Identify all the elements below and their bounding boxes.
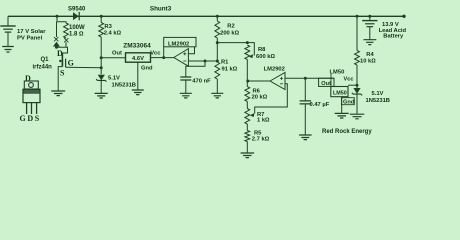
resistor R7 1k — [245, 109, 250, 125]
zener D3 5.1V — [352, 88, 362, 95]
label LM2902 first — [168, 42, 189, 48]
pin label Vcc LM50 — [344, 77, 354, 83]
battery B1 17V solar panel — [0, 26, 15, 32]
svg-text:LM50: LM50 — [330, 69, 345, 75]
label LM2902 second — [264, 67, 285, 73]
svg-text:0.47 µF: 0.47 µF — [310, 102, 330, 108]
label Q1 — [41, 57, 50, 63]
diode shunt (up) — [53, 42, 60, 47]
wire cap2 to ground — [304, 104, 306, 135]
svg-text:600 kΩ: 600 kΩ — [256, 54, 276, 60]
op-amp U3 plus — [280, 77, 283, 80]
label D package — [25, 74, 31, 83]
op-amp U2 plus — [183, 52, 186, 55]
wire bus to R3 — [100, 16, 102, 22]
label LM50 — [330, 69, 345, 75]
wire R5 to ground — [246, 142, 248, 153]
resistor R6 20k — [245, 87, 250, 102]
svg-text:1N5231B: 1N5231B — [112, 82, 137, 88]
svg-text:Vcc: Vcc — [150, 50, 161, 56]
ground gate zener — [95, 93, 108, 98]
svg-text:Gnd: Gnd — [141, 65, 153, 71]
capacitor C2 0.47uF — [300, 101, 312, 104]
package body — [23, 89, 40, 102]
ic U4 LM50 box — [331, 87, 348, 97]
pin box Gnd — [342, 98, 355, 105]
svg-text:17 V Solar: 17 V Solar — [17, 29, 46, 35]
x mark left branch — [54, 37, 58, 41]
pin label Out — [112, 50, 122, 56]
transistor Q1 gate bar — [65, 59, 67, 68]
wire R3 to gate node — [100, 37, 102, 74]
node gate — [100, 66, 103, 69]
wire branch split — [57, 16, 66, 23]
node R4 branch — [356, 15, 359, 18]
wire box leader left — [163, 47, 165, 58]
svg-text:Q1: Q1 — [41, 57, 50, 63]
op-amp U3 minus — [280, 83, 283, 85]
svg-text:Gnd: Gnd — [343, 99, 355, 105]
pin label Out LM50 — [321, 81, 331, 87]
wire inverting input line — [188, 60, 217, 62]
svg-text:LM2902: LM2902 — [168, 42, 189, 48]
wire panel to bus — [7, 16, 9, 26]
label 600 kohm — [256, 54, 276, 60]
ic U1 ZM33064 box — [126, 53, 151, 62]
node R2 branch — [216, 15, 219, 18]
node bus end terminal — [402, 15, 405, 18]
label S9540 — [68, 7, 86, 13]
ground source — [51, 91, 65, 96]
node vcc sense — [356, 84, 359, 87]
label Lead Acid — [379, 28, 407, 34]
svg-text:R2: R2 — [227, 23, 234, 29]
wire R6 to R7 — [246, 102, 248, 109]
ground R5 — [241, 153, 255, 158]
wire node A to R8 — [217, 42, 247, 44]
label 1N5231B right zener — [366, 98, 391, 104]
ic label box LM2902 first — [164, 37, 196, 46]
wire box leader right — [188, 47, 194, 54]
net label Shunt3 — [150, 6, 172, 13]
wire gate line — [66, 66, 102, 69]
svg-text:G: G — [68, 58, 74, 67]
package legs — [27, 103, 37, 114]
wire source lead — [58, 67, 62, 91]
node opamp2 out — [246, 80, 249, 83]
ground zener2 — [350, 114, 364, 119]
label 2.7 kohm — [252, 136, 270, 142]
wire LM50 vcc — [348, 84, 357, 86]
label 20 kohm — [252, 94, 268, 100]
label 1.8 ohm — [69, 32, 84, 38]
op-amp U3 triangle — [270, 73, 285, 90]
wire battery2 negative — [369, 27, 371, 40]
resistor R4 10k — [355, 51, 360, 66]
label 5.1V right zener — [372, 91, 384, 97]
label Red Rock Energy — [322, 129, 372, 135]
node ZM out — [100, 56, 103, 59]
wire opamp2 out — [247, 80, 270, 82]
label 1N5231B gate zener — [112, 82, 137, 88]
label R8 — [258, 47, 266, 53]
pin label Vcc — [150, 50, 161, 56]
wire zener2 ground — [356, 94, 358, 114]
node solar panel branch — [56, 15, 59, 18]
label ZM33064 — [123, 42, 151, 49]
ground 0.47uF — [299, 135, 312, 140]
label Battery — [383, 34, 404, 40]
transistor Q1 body dot — [59, 60, 61, 62]
svg-text:GDS: GDS — [20, 114, 41, 123]
svg-text:Out: Out — [112, 50, 122, 56]
svg-text:Battery: Battery — [383, 34, 404, 40]
svg-text:Vcc: Vcc — [344, 77, 354, 83]
node battery branch — [368, 15, 371, 18]
label 100W — [69, 25, 85, 31]
wire LM50 gnd — [341, 97, 343, 114]
label 470 nF — [192, 78, 211, 84]
svg-text:LM50: LM50 — [333, 91, 347, 97]
label 4.6V — [132, 56, 144, 62]
svg-text:5.1V: 5.1V — [108, 76, 120, 82]
label 0.47 uF — [310, 102, 330, 108]
package tab — [24, 81, 38, 89]
svg-text:S: S — [60, 68, 65, 77]
svg-text:1N5231B: 1N5231B — [366, 98, 391, 104]
svg-text:Out: Out — [321, 81, 331, 87]
pin box Out — [319, 78, 334, 86]
label R5 — [254, 131, 262, 137]
svg-text:Shunt3: Shunt3 — [150, 6, 172, 13]
svg-text:20 kΩ: 20 kΩ — [252, 94, 268, 100]
wire R2 to node A — [216, 38, 218, 62]
label 17 V Solar — [17, 29, 46, 35]
label S source — [60, 68, 65, 77]
resistor R3 2.4k — [99, 23, 104, 38]
node feedback cap — [204, 60, 207, 63]
wiper R8 — [247, 43, 254, 59]
label 13.9 V — [382, 22, 399, 28]
label D drain — [57, 49, 63, 58]
op-amp U2 triangle — [174, 49, 189, 67]
resistor R5 2.7k — [245, 131, 250, 142]
svg-text:Red Rock Energy: Red Rock Energy — [322, 129, 372, 135]
svg-text:200 kΩ: 200 kΩ — [220, 30, 240, 36]
wire resistor to D node — [65, 42, 67, 47]
ground panel — [2, 47, 14, 53]
resistor R2 200k — [215, 21, 220, 38]
label R1 — [221, 60, 229, 66]
wire bus to R2 — [216, 16, 218, 21]
wire diode to D node — [56, 46, 58, 49]
op-amp U2 minus — [183, 60, 186, 62]
label G gate — [68, 58, 74, 67]
diode D1 S9540 — [73, 12, 79, 20]
node drain D — [55, 46, 58, 49]
wire cap branch — [186, 61, 205, 77]
svg-text:R8: R8 — [258, 47, 266, 53]
svg-text:4.6V: 4.6V — [132, 56, 144, 62]
svg-text:91 kΩ: 91 kΩ — [222, 67, 238, 73]
wire R1 to ground — [216, 79, 218, 93]
x mark resistor branch — [64, 38, 68, 42]
wire main positive bus — [8, 15, 404, 17]
wire left shunt branch — [56, 22, 58, 37]
resistor R1 91k — [215, 62, 220, 79]
svg-text:1.8 Ω: 1.8 Ω — [69, 32, 84, 38]
wire R7 to R5 — [246, 124, 248, 131]
label R3 — [104, 24, 112, 30]
label R4 — [366, 52, 374, 58]
node A — [216, 41, 219, 44]
label 1 kohm — [257, 118, 270, 124]
wire opamp out to cap — [304, 78, 306, 101]
svg-text:R3: R3 — [104, 24, 112, 30]
label GDS — [20, 114, 41, 123]
label 10 kohm — [360, 58, 376, 64]
svg-text:PV Panel: PV Panel — [17, 35, 43, 41]
wire inv input 2 — [250, 84, 287, 117]
ground 470nF — [180, 93, 192, 98]
node inv input — [216, 60, 219, 63]
label R6 — [253, 88, 261, 94]
label 200 kohm — [220, 30, 240, 36]
svg-text:2.4 kΩ: 2.4 kΩ — [104, 31, 122, 37]
svg-text:LM2902: LM2902 — [264, 67, 285, 73]
wire LM50 label leader — [330, 74, 332, 87]
transistor Q1 channel bar — [61, 53, 63, 67]
resistor R8 600k — [245, 45, 250, 60]
svg-text:100W: 100W — [69, 25, 85, 31]
wire noninv input — [285, 77, 334, 79]
wire R8 to out node — [246, 60, 248, 87]
pin label Gnd — [141, 65, 153, 71]
wire bus to battery2 — [369, 16, 371, 20]
svg-text:10 kΩ: 10 kΩ — [360, 58, 376, 64]
zener D2 5.1V — [96, 75, 106, 82]
wire cap to ground — [185, 80, 187, 93]
svg-text:R4: R4 — [366, 52, 374, 58]
label 5.1V gate zener — [108, 76, 120, 82]
wire ZM vcc pin — [151, 57, 174, 59]
svg-text:R1: R1 — [221, 60, 229, 66]
ground R1 — [211, 93, 223, 98]
label R7 — [257, 112, 264, 118]
ground LM50 — [335, 113, 349, 118]
node R3 branch — [100, 15, 103, 18]
wire zener to ground — [100, 80, 102, 93]
svg-text:irfz44n: irfz44n — [33, 64, 53, 70]
node cap 047 branch — [304, 77, 307, 80]
svg-text:D: D — [25, 74, 31, 83]
wire bus to R4 — [356, 16, 358, 50]
wire panel negative — [7, 33, 9, 47]
label 2.4 kohm — [104, 31, 122, 37]
resistor 100W 1.8ohm — [64, 23, 69, 38]
svg-text:5.1V: 5.1V — [372, 91, 384, 97]
ground battery2 — [364, 40, 377, 45]
svg-text:1 kΩ: 1 kΩ — [257, 118, 270, 124]
svg-text:2.7 kΩ: 2.7 kΩ — [252, 136, 270, 142]
ground ZM33064 — [132, 90, 144, 95]
node vcc leader — [162, 56, 165, 59]
wire drain lead — [57, 47, 68, 53]
capacitor C1 470nF — [180, 77, 191, 80]
pin label Gnd LM50 — [343, 99, 355, 105]
label irfz44n — [33, 64, 53, 70]
wire R4 to zener — [356, 65, 358, 88]
label R2 — [227, 23, 234, 29]
label PV Panel — [17, 35, 43, 41]
wire ZM gnd pin — [137, 62, 139, 90]
svg-text:470 nF: 470 nF — [192, 78, 211, 84]
svg-text:ZM33064: ZM33064 — [123, 42, 151, 49]
label LM50 in box — [333, 91, 347, 97]
label 91 kohm — [222, 67, 238, 73]
svg-text:S9540: S9540 — [68, 7, 86, 13]
battery B2 13.9V lead acid — [362, 21, 377, 27]
node R8 top — [246, 41, 249, 44]
wire ZM out pin — [101, 57, 125, 59]
